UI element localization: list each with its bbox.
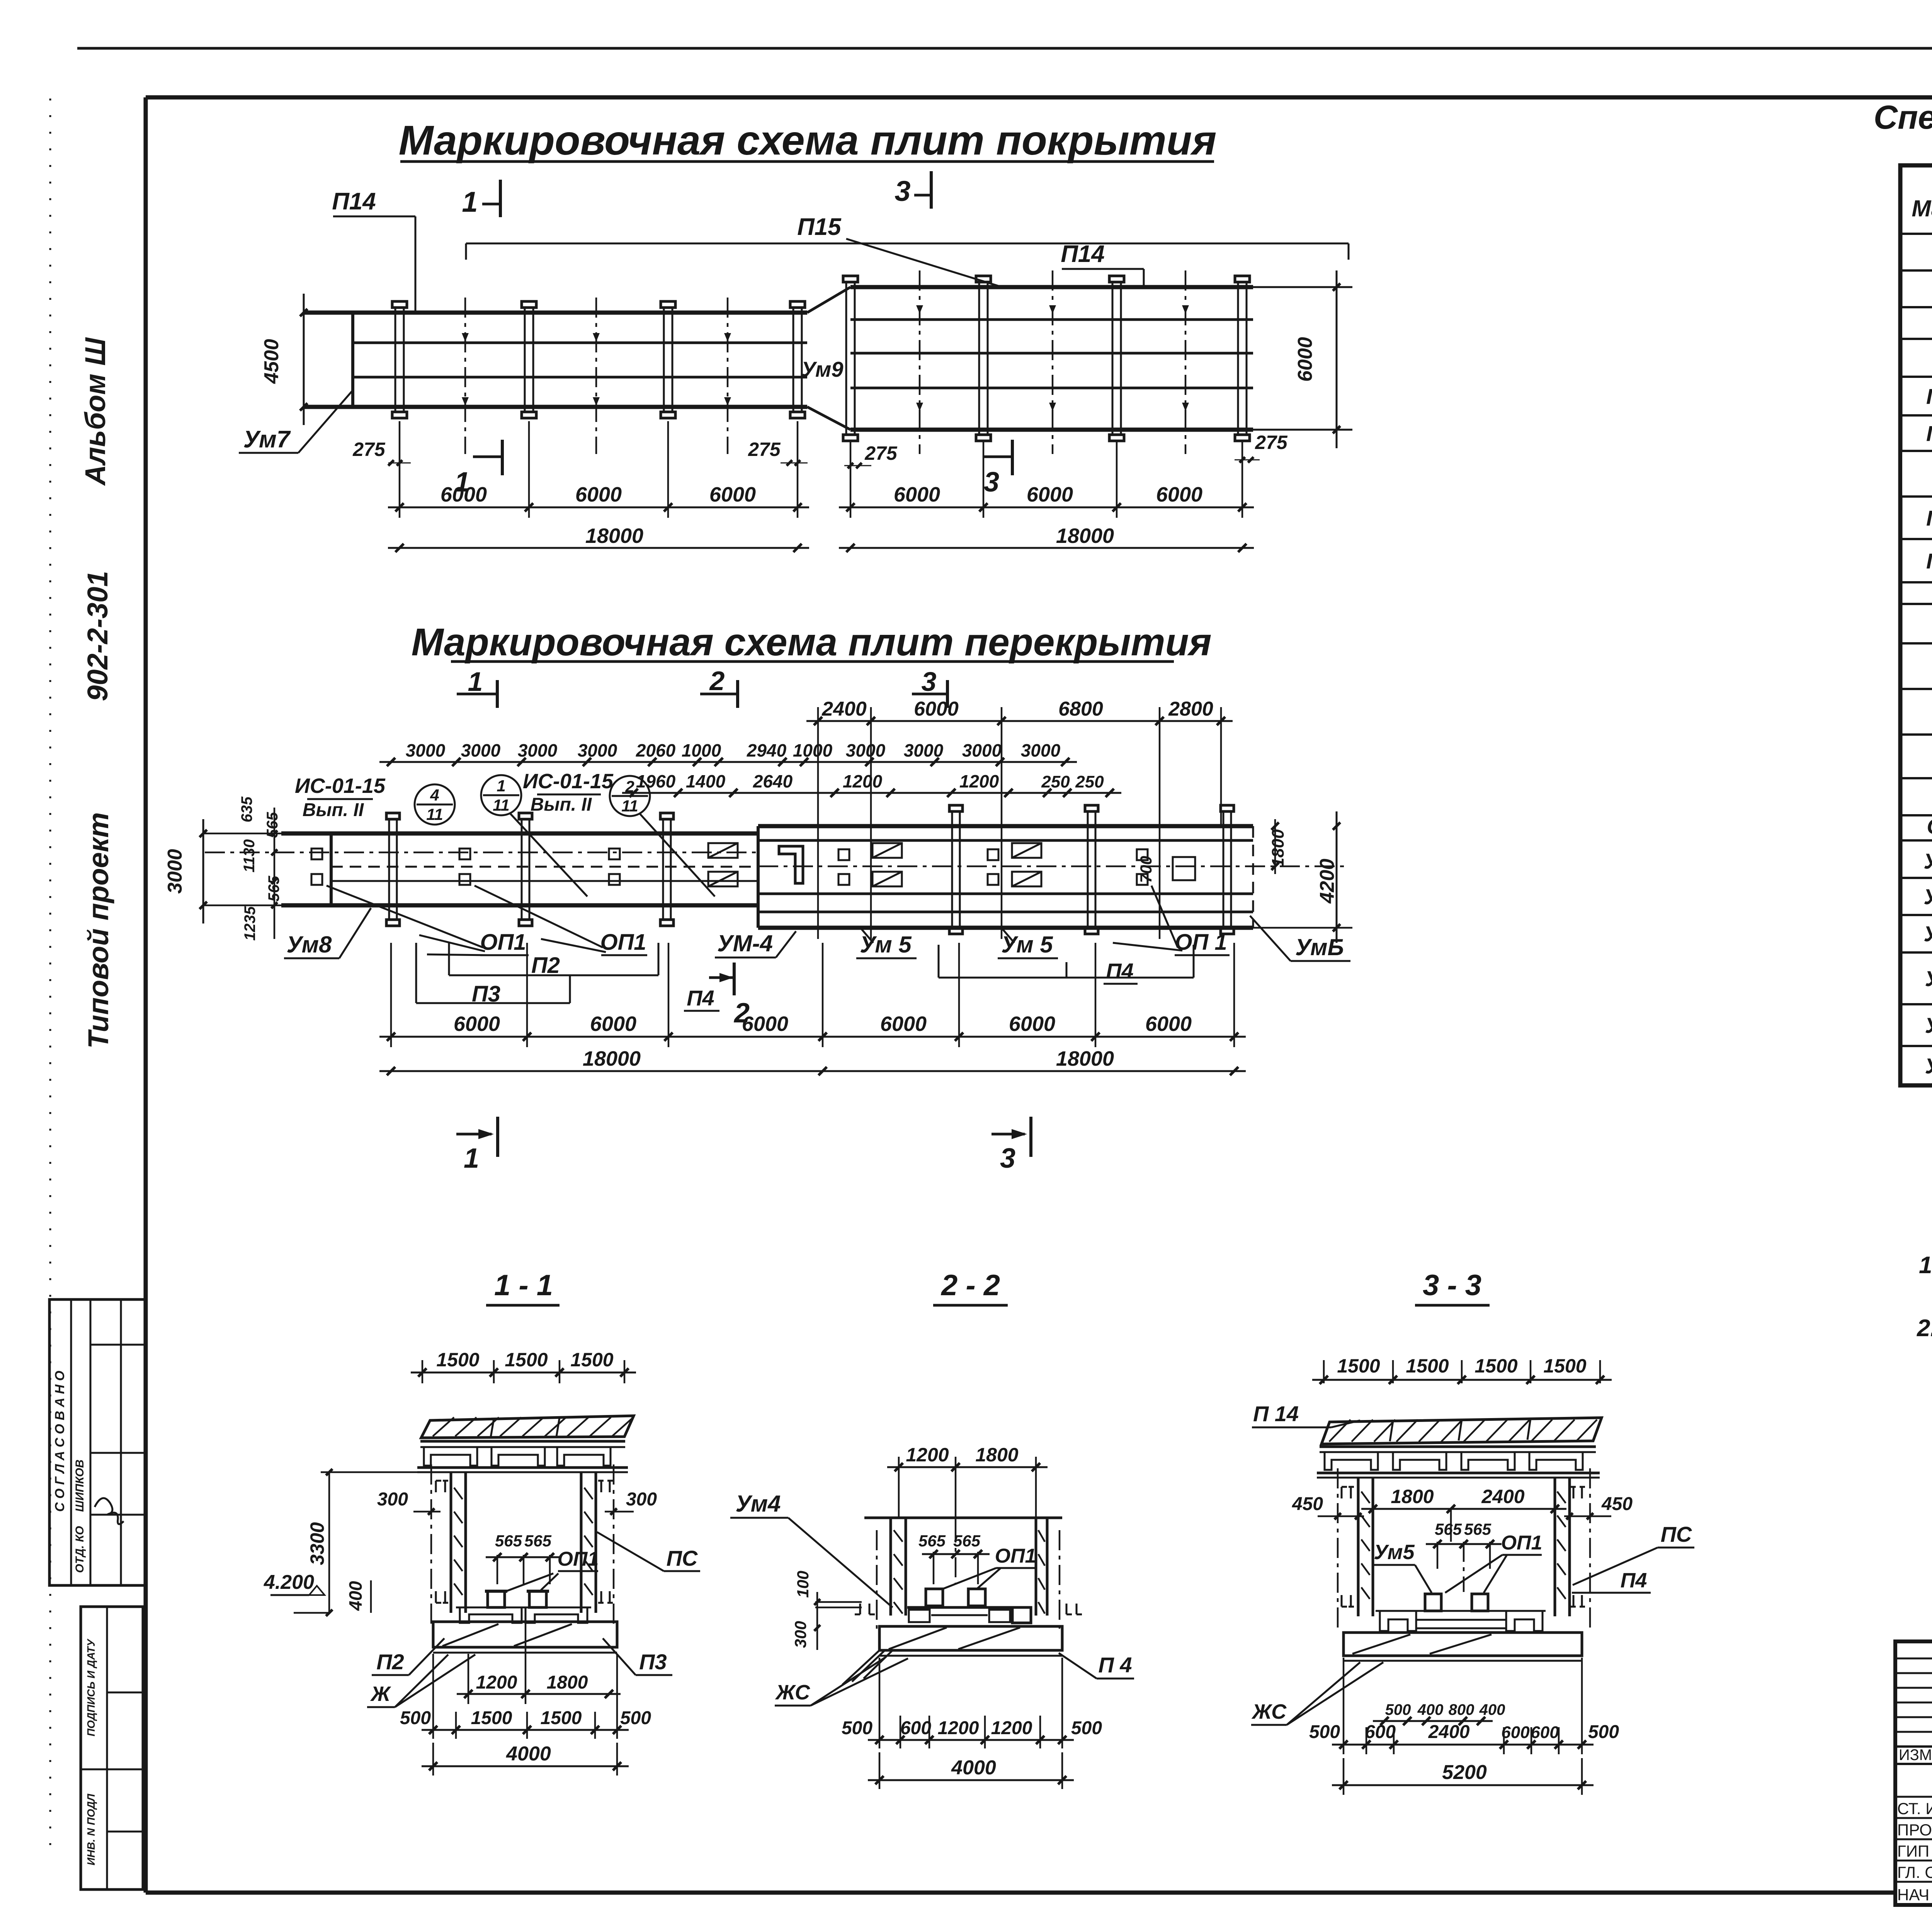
svg-text:1500: 1500 — [505, 1349, 548, 1371]
svg-text:П 14: П 14 — [1253, 1401, 1299, 1426]
plan2 right dim 4200 — [1336, 811, 1338, 943]
svg-text:УМ 5: УМ 5 — [1923, 884, 1932, 909]
svg-text:6000: 6000 — [1009, 1012, 1055, 1036]
section 1-1 left wall — [450, 1472, 452, 1613]
plan2 band left part outline — [281, 832, 758, 836]
approval stamp signature — [95, 1498, 124, 1524]
svg-text:6000: 6000 — [1294, 337, 1316, 382]
svg-text:1 - 1: 1 - 1 — [494, 1269, 553, 1302]
svg-text:565: 565 — [524, 1532, 552, 1550]
section 1-1 wall axes — [430, 1464, 432, 1629]
drawing frame — [146, 95, 1932, 100]
svg-text:11: 11 — [426, 805, 443, 823]
plan1 band A column 4 — [793, 308, 794, 412]
plan2 monolithic patch 2 — [872, 843, 902, 858]
section 1-1 support posts — [488, 1591, 505, 1607]
svg-text:ЖС: ЖС — [775, 1681, 810, 1704]
svg-text:500: 500 — [1071, 1718, 1102, 1738]
title block outer box — [1895, 1641, 1932, 1905]
svg-text:ОТД. КО: ОТД. КО — [73, 1526, 86, 1573]
svg-text:1000: 1000 — [682, 740, 721, 760]
section 1-1 bottom dim row 500 1500 1500 500 — [432, 1654, 434, 1739]
svg-text:6000: 6000 — [454, 1012, 500, 1036]
svg-text:П14: П14 — [332, 188, 376, 215]
svg-text:450: 450 — [1601, 1494, 1633, 1514]
svg-text:6000: 6000 — [575, 483, 622, 506]
svg-text:3000: 3000 — [1021, 740, 1061, 760]
svg-text:1800: 1800 — [1269, 829, 1287, 867]
plan2 detail circle 4/11 — [415, 784, 455, 825]
plan2 support posts OP1 group 5 — [988, 849, 998, 860]
plan2 detail circle 2/11 — [610, 776, 650, 816]
plan1 band B plate anchor marks — [916, 305, 923, 314]
plan2 support posts OP1 group 4 — [838, 849, 849, 860]
section 3-3 roof panels row — [1320, 1446, 1596, 1448]
svg-text:П4: П4 — [1621, 1569, 1647, 1592]
svg-text:1500: 1500 — [1406, 1355, 1449, 1377]
svg-text:500: 500 — [620, 1708, 651, 1728]
svg-text:2 - 2: 2 - 2 — [940, 1269, 1000, 1302]
plan2 detail circle 1/11 — [481, 775, 521, 815]
svg-text:2060: 2060 — [636, 740, 676, 760]
section 3-3 support posts — [1425, 1594, 1441, 1611]
svg-text:П 14: П 14 — [1926, 506, 1932, 530]
svg-text:Типовой проект: Типовой проект — [82, 812, 114, 1049]
svg-text:3000: 3000 — [518, 740, 558, 760]
plan2 right end dashed edge — [1252, 826, 1254, 928]
svg-text:6000: 6000 — [742, 1012, 788, 1036]
svg-text:С О Г Л А С О В А Н О: С О Г Л А С О В А Н О — [53, 1371, 67, 1512]
svg-text:600: 600 — [1531, 1723, 1559, 1742]
svg-text:Маркировочная схема плит по: Маркировочная схема плит покрытия — [399, 117, 1217, 163]
svg-text:1200: 1200 — [991, 1718, 1032, 1738]
svg-text:2400: 2400 — [1428, 1722, 1470, 1742]
svg-text:ИС-01-15: ИС-01-15 — [523, 770, 614, 793]
svg-text:1: 1 — [464, 1143, 479, 1174]
svg-text:3000: 3000 — [846, 740, 886, 760]
svg-text:6000: 6000 — [1156, 483, 1202, 506]
svg-text:3000: 3000 — [406, 740, 446, 760]
svg-text:2640: 2640 — [753, 771, 793, 791]
plan2 column 3 — [662, 819, 664, 920]
svg-text:П2: П2 — [531, 953, 560, 978]
svg-text:П4: П4 — [1106, 959, 1133, 983]
svg-text:Вып. II: Вып. II — [531, 794, 592, 815]
plan1 band B column 2 — [978, 282, 980, 435]
svg-text:3000: 3000 — [904, 740, 944, 760]
section 1-1 right wall — [580, 1472, 583, 1613]
svg-text:УМ 4: УМ 4 — [1923, 849, 1932, 873]
plan2 bottom dim row 6000 — [390, 943, 392, 1047]
svg-text:ИНВ. N ПОДЛ: ИНВ. N ПОДЛ — [85, 1794, 97, 1866]
svg-text:ПС: ПС — [1661, 1522, 1692, 1546]
svg-text:2400: 2400 — [1481, 1486, 1524, 1507]
plan1 right dim 6000 — [1336, 270, 1338, 448]
plan2 lower cut mark 3 — [992, 1133, 1025, 1136]
plan2 bottom dim row 18000 — [379, 1070, 1246, 1072]
plan1 left dim 4500 — [303, 294, 305, 425]
plan1 band A plate anchor marks — [462, 333, 469, 342]
plan2 formwork hook symbol — [779, 846, 803, 883]
plan2 column 2 — [521, 819, 523, 920]
svg-text:500: 500 — [842, 1718, 872, 1738]
svg-text:Маркировочная схема плит пе: Маркировочная схема плит перекрытия — [411, 621, 1211, 664]
svg-text:500: 500 — [1309, 1722, 1340, 1742]
plan1 transition diagonals to band B — [807, 287, 850, 313]
svg-text:400: 400 — [1417, 1701, 1444, 1718]
section 2-2 corner angle marks — [855, 1604, 875, 1614]
plan1 band B outline — [850, 285, 1253, 289]
svg-text:П 14: П 14 — [1926, 384, 1932, 408]
svg-text:5200: 5200 — [1442, 1761, 1487, 1784]
svg-text:635: 635 — [238, 796, 255, 822]
plan2 column 5 — [1087, 811, 1089, 928]
section 3-3 bottom slab — [1344, 1633, 1582, 1656]
plan2 support posts OP1 group 1 — [311, 849, 322, 859]
section 2-2 right wall — [1035, 1518, 1037, 1616]
plan2 label P3 bracket — [416, 1002, 570, 1004]
svg-text:СТ. ИНЖЕН.: СТ. ИНЖЕН. — [1897, 1799, 1932, 1818]
svg-text:1800: 1800 — [547, 1672, 588, 1693]
plan2 support posts OP1 group 6 — [1137, 849, 1148, 860]
left sheet dotted edge — [49, 99, 51, 1853]
svg-text:565: 565 — [953, 1532, 981, 1550]
svg-text:Ум 8: Ум 8 — [1925, 1013, 1932, 1037]
svg-text:1200: 1200 — [906, 1444, 949, 1466]
svg-text:Альбом Ш: Альбом Ш — [79, 337, 111, 486]
svg-text:250: 250 — [1041, 772, 1070, 791]
svg-text:ОП1: ОП1 — [1501, 1532, 1543, 1554]
svg-text:1500: 1500 — [570, 1349, 613, 1371]
section 1-1 floor channels — [460, 1607, 522, 1623]
plan1 band B column 1 — [845, 282, 847, 435]
svg-text:ИЗМ: ИЗМ — [1899, 1747, 1932, 1764]
section 1-1 roof panels row — [420, 1440, 625, 1443]
svg-text:ОП1: ОП1 — [995, 1545, 1036, 1567]
svg-text:ПОДПИСЬ И ДАТУ: ПОДПИСЬ И ДАТУ — [85, 1638, 97, 1736]
svg-text:1400: 1400 — [686, 771, 726, 791]
spec table grid — [1900, 165, 1932, 1085]
svg-text:Ум 9: Ум 9 — [1925, 1054, 1932, 1078]
section 3-3 roof slab hatched — [1321, 1418, 1602, 1444]
inventory stamp box — [81, 1607, 143, 1889]
svg-text:600: 600 — [900, 1718, 931, 1738]
svg-text:2: 2 — [625, 777, 634, 796]
plan1 band A column 2 — [524, 308, 526, 412]
svg-text:1130: 1130 — [241, 839, 258, 872]
section 2-2 top dims 1200 1800 — [898, 1457, 900, 1519]
svg-text:3: 3 — [895, 175, 910, 207]
svg-text:6800: 6800 — [1058, 698, 1103, 720]
plan1 band A column 3 — [663, 308, 665, 412]
svg-text:1200: 1200 — [476, 1672, 517, 1693]
section 3-3 bottom dim row 500 600 2400 600 600 500 — [1343, 1658, 1345, 1754]
plan1 band A outline — [304, 311, 807, 315]
svg-text:6000: 6000 — [590, 1012, 636, 1036]
plan2 band left axis — [205, 852, 758, 854]
plan2 dim row C — [622, 792, 1121, 794]
section 3-3 wall axes — [1337, 1468, 1339, 1633]
svg-text:П4: П4 — [687, 986, 714, 1010]
plan1 dimension row 18000 — [388, 547, 809, 549]
plan2 monolithic patch 3 — [1012, 843, 1041, 858]
plan1 band A interior lines — [353, 342, 807, 344]
plan2 band right interior lines — [758, 839, 1253, 842]
svg-text:1235: 1235 — [241, 906, 259, 941]
svg-text:ЖС: ЖС — [1251, 1700, 1287, 1723]
svg-text:300: 300 — [377, 1489, 408, 1510]
svg-text:250: 250 — [1075, 772, 1104, 791]
plan1 band B column 3 — [1112, 282, 1114, 435]
plan2 dim row B — [379, 761, 1077, 763]
svg-text:18000: 18000 — [1056, 524, 1114, 548]
svg-text:6000: 6000 — [894, 483, 940, 506]
plan2 dim 700 rect — [1173, 857, 1195, 880]
svg-text:4000: 4000 — [506, 1743, 551, 1765]
svg-text:УМ-4: УМ-4 — [717, 930, 773, 956]
svg-text:1200: 1200 — [959, 771, 999, 791]
plan2 left dim 3000 — [202, 819, 204, 923]
svg-text:1 Опалубки плит ст. лист К: 1 Опалубки плит ст. лист КЖ-43. — [1919, 1252, 1932, 1279]
svg-text:565: 565 — [495, 1532, 522, 1550]
svg-text:500: 500 — [400, 1708, 431, 1728]
plan2 lower cut mark 1 — [456, 1133, 492, 1136]
svg-text:Ум9: Ум9 — [801, 357, 843, 381]
svg-text:500: 500 — [1588, 1722, 1619, 1742]
svg-text:1800: 1800 — [975, 1444, 1018, 1466]
plan1 band A column 1 — [395, 308, 396, 412]
svg-text:600: 600 — [1501, 1723, 1530, 1742]
svg-text:П 4: П 4 — [1099, 1653, 1132, 1677]
svg-text:НАЧ ОТД.: НАЧ ОТД. — [1897, 1886, 1932, 1904]
svg-text:450: 450 — [1292, 1494, 1323, 1514]
svg-text:1800: 1800 — [1391, 1486, 1434, 1507]
section 2-2 support posts — [926, 1589, 943, 1606]
section 2-2 bottom slab P4 — [879, 1626, 1062, 1650]
svg-text:П14: П14 — [1061, 241, 1105, 267]
plan1 bottom cut mark 1 — [473, 456, 502, 458]
svg-text:4: 4 — [430, 786, 439, 804]
plan1 band B column 4 — [1237, 282, 1239, 435]
section 3-3 right wall — [1554, 1478, 1556, 1616]
svg-text:600: 600 — [1365, 1722, 1396, 1742]
svg-text:П3: П3 — [472, 981, 500, 1007]
svg-text:1500: 1500 — [1543, 1355, 1586, 1377]
plan2 top dim row A — [817, 707, 819, 939]
svg-text:ОП1: ОП1 — [480, 930, 526, 955]
plan2 bottom cut mark 2 — [709, 976, 733, 979]
svg-text:1500: 1500 — [1337, 1355, 1380, 1377]
section 3-3 left wall — [1357, 1478, 1360, 1616]
plan1 bottom cut mark 3 — [983, 456, 1012, 458]
svg-text:100: 100 — [794, 1571, 812, 1598]
section 2-2 floor assembly — [907, 1606, 1031, 1609]
plan2 band right part outline — [758, 824, 1253, 828]
svg-text:11: 11 — [621, 797, 638, 815]
svg-text:ОП 1: ОП 1 — [1175, 930, 1227, 955]
svg-text:6000: 6000 — [880, 1012, 927, 1036]
svg-text:400: 400 — [345, 1581, 366, 1611]
svg-text:4000: 4000 — [951, 1757, 996, 1779]
svg-text:1500: 1500 — [541, 1708, 582, 1728]
approval stamp box — [49, 1299, 145, 1585]
plan2 band left interior lines — [331, 866, 758, 868]
svg-text:275: 275 — [864, 442, 898, 464]
svg-text:П2: П2 — [376, 1650, 404, 1674]
svg-text:Ум4: Ум4 — [736, 1491, 781, 1517]
svg-text:П 15: П 15 — [1926, 549, 1932, 573]
svg-text:3300: 3300 — [306, 1522, 328, 1565]
svg-text:3: 3 — [984, 467, 999, 498]
svg-text:800: 800 — [1449, 1701, 1475, 1718]
plan2 column 6 — [1223, 811, 1225, 928]
svg-text:ПРОВЕР.: ПРОВЕР. — [1897, 1821, 1932, 1839]
svg-text:Ум5: Ум5 — [1374, 1541, 1415, 1564]
svg-text:565: 565 — [1435, 1520, 1462, 1538]
svg-text:6000: 6000 — [914, 698, 959, 720]
svg-text:ШИПКОВ: ШИПКОВ — [73, 1459, 86, 1512]
svg-text:2. Монолитные участки ст.: 2. Монолитные участки ст. листы КЖ - 50,… — [1917, 1315, 1932, 1342]
svg-text:ГИП: ГИП — [1897, 1842, 1929, 1860]
section 1-1 corner angle marks — [436, 1481, 448, 1492]
section 1-1 top dims 1500x3 — [422, 1360, 423, 1383]
svg-text:ПС: ПС — [667, 1546, 698, 1570]
svg-text:1200: 1200 — [938, 1718, 979, 1738]
svg-text:565: 565 — [918, 1532, 946, 1550]
plan1 band B interior lines — [850, 318, 1253, 321]
svg-text:1000: 1000 — [793, 740, 833, 760]
plan2 bracket under Um5 — [939, 977, 1194, 979]
svg-text:Ж: Ж — [370, 1682, 391, 1706]
svg-text:П 15: П 15 — [1926, 421, 1932, 446]
plan2 band right axis — [758, 866, 1349, 867]
svg-text:П15: П15 — [797, 214, 842, 240]
plan2 right dim 1800 — [1274, 819, 1276, 874]
section 3-3 top dims 1500x4 — [1323, 1360, 1325, 1383]
svg-text:Спецификация элементов к ма: Спецификация элементов к маркировочным с… — [1874, 99, 1932, 136]
svg-text:4.200: 4.200 — [264, 1571, 314, 1594]
svg-text:Марка: Марка — [1912, 196, 1932, 221]
section 1-1 bottom dim row 4000 — [422, 1765, 629, 1767]
svg-text:18000: 18000 — [1056, 1047, 1114, 1070]
section 2-2 wall axes — [876, 1530, 878, 1629]
plan2 column 4 — [951, 811, 953, 928]
plan1 band B column extension lines — [850, 440, 852, 518]
section 3-3 bottom dim row 500 400 800 400 — [1373, 1720, 1493, 1722]
title block left stamp grid — [1895, 1745, 1932, 1748]
svg-text:18000: 18000 — [585, 524, 643, 548]
svg-text:1: 1 — [454, 467, 470, 498]
svg-text:18000: 18000 — [583, 1047, 641, 1070]
plan1 band A axis lines — [464, 298, 466, 454]
section 1-1 dim 3300 — [328, 1472, 330, 1613]
svg-text:ОП1: ОП1 — [1927, 814, 1932, 838]
section 1-1 bottom dim row 1200 1800 — [468, 1654, 469, 1704]
section 2-2 walls top line — [864, 1517, 1062, 1519]
svg-text:300: 300 — [626, 1489, 657, 1510]
svg-text:300: 300 — [791, 1621, 810, 1648]
svg-text:1960: 1960 — [636, 771, 676, 791]
plan2 label P2 bracket — [449, 975, 658, 976]
svg-text:3: 3 — [922, 667, 937, 697]
svg-text:Ум7: Ум7 — [243, 426, 291, 453]
section 2-2 bottom dim row 500 600 1200 1200 500 — [879, 1658, 881, 1748]
svg-text:1500: 1500 — [471, 1708, 512, 1728]
svg-text:1200: 1200 — [843, 771, 883, 791]
svg-text:6000: 6000 — [1145, 1012, 1192, 1036]
plan2 monolithic patch 1 — [708, 843, 738, 858]
section 3-3 bottom dim row 5200 — [1332, 1784, 1594, 1786]
plan2 support posts OP1 group 2 — [459, 849, 470, 859]
svg-text:3000: 3000 — [578, 740, 617, 760]
section 2-2 bottom dim row 4000 — [868, 1779, 1074, 1781]
svg-text:1500: 1500 — [436, 1349, 479, 1371]
svg-text:Ум 7: Ум 7 — [1925, 966, 1932, 991]
plan2 support posts OP1 group 3 — [609, 849, 620, 859]
section 1-1 bottom slab — [433, 1622, 617, 1647]
svg-text:ГЛ. СПЕЦ.: ГЛ. СПЕЦ. — [1897, 1863, 1932, 1881]
svg-text:3 - 3: 3 - 3 — [1423, 1269, 1481, 1302]
svg-text:275: 275 — [748, 439, 781, 460]
svg-text:4200: 4200 — [1316, 859, 1338, 904]
svg-text:500: 500 — [1385, 1701, 1411, 1718]
svg-text:1: 1 — [497, 777, 505, 795]
svg-text:700: 700 — [1137, 856, 1155, 883]
svg-text:П3: П3 — [639, 1650, 667, 1674]
svg-text:3000: 3000 — [164, 849, 186, 894]
plan1 small dim ticks under 275 labels — [388, 463, 411, 464]
svg-text:3000: 3000 — [461, 740, 501, 760]
svg-text:1500: 1500 — [1475, 1355, 1517, 1377]
section 1-1 roof slab hatched — [421, 1416, 634, 1438]
section 2-2 left wall — [889, 1518, 892, 1616]
section 3-3 floor channels — [1380, 1611, 1416, 1631]
svg-text:ИС-01-15: ИС-01-15 — [295, 774, 386, 798]
svg-text:3000: 3000 — [962, 740, 1002, 760]
svg-text:2: 2 — [709, 666, 725, 696]
svg-text:6000: 6000 — [1027, 483, 1073, 506]
svg-text:Вып. II: Вып. II — [303, 800, 364, 820]
svg-text:ОП1: ОП1 — [558, 1548, 599, 1570]
svg-text:2400: 2400 — [821, 698, 867, 720]
svg-text:УМ 6: УМ 6 — [1923, 922, 1932, 946]
section 2-2 slab corner hatch left — [842, 1650, 893, 1685]
svg-text:УмБ: УмБ — [1295, 934, 1344, 960]
svg-text:400: 400 — [1479, 1701, 1505, 1718]
svg-text:2940: 2940 — [747, 740, 787, 760]
svg-text:275: 275 — [1255, 432, 1288, 453]
svg-text:Ум8: Ум8 — [287, 932, 332, 957]
svg-text:2800: 2800 — [1168, 698, 1213, 720]
svg-text:11: 11 — [493, 796, 510, 814]
sheet top edge line — [77, 47, 1932, 50]
svg-text:4500: 4500 — [260, 339, 283, 384]
svg-text:ОП1: ОП1 — [600, 930, 646, 955]
svg-text:902-2-301: 902-2-301 — [82, 571, 114, 701]
svg-text:6000: 6000 — [709, 483, 756, 506]
plan2 column 1 — [388, 819, 390, 920]
plan1 band B axis lines — [919, 270, 921, 454]
svg-text:275: 275 — [352, 439, 386, 460]
svg-text:3: 3 — [1000, 1143, 1015, 1174]
svg-text:1: 1 — [462, 186, 478, 218]
section 3-3 corner angle marks — [1342, 1487, 1354, 1498]
plan1 dimension row spans 6000 — [399, 421, 401, 518]
svg-text:1: 1 — [468, 667, 483, 697]
svg-text:565: 565 — [1464, 1520, 1492, 1538]
